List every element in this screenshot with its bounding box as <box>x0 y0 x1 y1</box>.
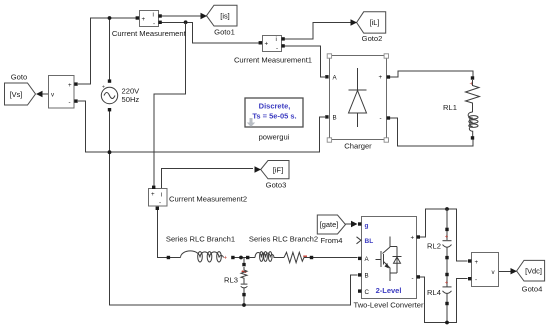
svg-text:-: - <box>159 200 161 207</box>
arrowhead into Goto3 <box>255 166 262 172</box>
diode inside charger <box>357 68 359 90</box>
wire: AC source bottom down to bottom rail and Converter B <box>110 110 358 305</box>
svg-text:RL4: RL4 <box>427 288 441 297</box>
svg-text:RL2: RL2 <box>427 241 441 250</box>
svg-text:Discrete,: Discrete, <box>259 102 291 111</box>
IGBT symbol <box>389 237 391 248</box>
svg-text:Goto4: Goto4 <box>522 284 543 293</box>
voltage measurement Vdc <box>468 253 499 287</box>
svg-text:g: g <box>365 223 369 230</box>
goto tag Goto4 [Vdc] <box>517 260 545 293</box>
node: RL3 top junction <box>239 256 243 260</box>
node: rail / AC source junction <box>108 16 112 20</box>
port nubs <box>358 222 361 225</box>
arrowhead into Goto4 <box>511 268 518 274</box>
wire: CM2 minus down to Series RLC Branch1 <box>158 209 169 258</box>
svg-text:[is]: [is] <box>220 12 229 21</box>
wire: AC source top to rail <box>109 18 111 81</box>
series RLC branch RL2 (vertical capacitor) <box>427 228 451 260</box>
powergui block <box>245 98 303 142</box>
svg-text:[Vs]: [Vs] <box>10 90 23 99</box>
two-level converter block <box>353 217 424 310</box>
svg-text:+: + <box>411 235 415 242</box>
wire: CM2 i output to Goto3 <box>162 169 254 190</box>
wire: branch1 to branch2 junction <box>234 257 248 259</box>
arrowhead into Goto2 <box>351 19 358 25</box>
svg-text:B: B <box>333 115 337 122</box>
svg-text:+: + <box>265 40 269 47</box>
svg-text:-: - <box>380 115 382 122</box>
svg-text:+: + <box>445 281 449 287</box>
svg-text:Two-Level Converter: Two-Level Converter <box>353 300 424 309</box>
goto tag Goto2 [iL] <box>357 12 386 43</box>
wire: Vs v-meas minus / common node to Charger B <box>78 101 325 152</box>
wire: From4 to Converter g <box>346 223 353 225</box>
svg-text:-: - <box>69 99 71 106</box>
BL unconnected chevron <box>357 237 362 244</box>
series RLC branch1 (inductor) <box>166 234 235 262</box>
arrowhead into [Vs] <box>36 91 43 97</box>
svg-text:i: i <box>153 12 154 19</box>
charger block (selected) <box>325 54 390 151</box>
svg-text:Series RLC Branch1: Series RLC Branch1 <box>166 234 235 243</box>
arrowhead into converter g <box>351 221 358 227</box>
goto tag Goto1 [is] <box>207 5 238 36</box>
svg-text:i: i <box>276 36 277 43</box>
svg-text:[iF]: [iF] <box>273 165 283 174</box>
wire: Converter plus to DC top rail to Vdc plus <box>420 209 468 261</box>
wire: CM i output to Goto1 <box>159 15 203 17</box>
svg-text:Current Measurement1: Current Measurement1 <box>234 56 312 65</box>
svg-text:From4: From4 <box>321 236 343 245</box>
svg-text:+: + <box>151 191 155 198</box>
svg-text:+: + <box>68 82 72 89</box>
svg-text:RL1: RL1 <box>443 103 457 112</box>
svg-text:RL3: RL3 <box>224 276 238 285</box>
series RLC branch2 (inductor + resistor) <box>246 234 318 262</box>
svg-text:Charger: Charger <box>344 142 372 151</box>
svg-text:Goto2: Goto2 <box>362 34 383 43</box>
svg-text:50Hz: 50Hz <box>122 95 140 104</box>
goto tag Goto3 [iF] <box>261 161 289 190</box>
current measurement CM1 <box>234 36 312 65</box>
node: AC bottom / common junction <box>108 150 112 154</box>
wire: RL1 bottom to Charger minus <box>390 118 473 146</box>
svg-text:[iL]: [iL] <box>370 18 380 27</box>
svg-text:Goto3: Goto3 <box>266 180 287 189</box>
svg-text:Series RLC Branch2: Series RLC Branch2 <box>249 234 318 243</box>
svg-text:-: - <box>412 275 414 282</box>
svg-text:-: - <box>475 277 477 284</box>
wire: branch2 to Converter A <box>312 257 358 259</box>
svg-text:+: + <box>475 259 479 266</box>
series RLC branch RL1 <box>443 76 479 139</box>
svg-text:[Vdc]: [Vdc] <box>525 267 542 276</box>
svg-text:2-Level: 2-Level <box>376 286 402 295</box>
svg-text:powergui: powergui <box>259 133 290 142</box>
svg-text:Current Measurement: Current Measurement <box>112 29 187 38</box>
node: RL4 bottom rail junction <box>445 321 449 325</box>
selection handles <box>327 54 331 58</box>
arrowhead into Goto1 <box>201 13 208 19</box>
node: RL3 bottom rail junction <box>242 303 246 307</box>
wire: junction down to Current Measurement2 plus <box>154 22 186 186</box>
svg-text:B: B <box>365 273 369 280</box>
wire: CM1 minus to Charger A <box>283 46 325 77</box>
svg-text:[gate]: [gate] <box>320 220 339 229</box>
svg-text:BL: BL <box>365 238 374 245</box>
AC voltage source 220V 50Hz <box>101 79 140 111</box>
wire: Vs v-meas plus up to top rail <box>78 18 136 84</box>
from tag From4 [gate] <box>317 215 345 245</box>
wire: CM1 i output to Goto2 <box>283 23 351 39</box>
svg-text:Goto: Goto <box>11 73 27 82</box>
svg-text:C: C <box>365 289 370 296</box>
svg-text:-: - <box>153 21 155 28</box>
charger port nubs <box>325 75 328 78</box>
series RLC branch RL4 (vertical capacitor) <box>427 273 451 305</box>
svg-text:+: + <box>445 234 449 240</box>
node: RL2 top junction <box>445 207 449 211</box>
svg-text:i: i <box>161 192 162 199</box>
wire: RL3 vertical <box>243 258 245 264</box>
svg-text:+: + <box>224 255 228 261</box>
svg-text:-: - <box>276 45 278 52</box>
svg-text:Current Measurement2: Current Measurement2 <box>169 195 247 204</box>
wire: RL2/RL4 chain vertical <box>446 209 448 240</box>
goto tag [Vs] <box>5 73 36 106</box>
svg-text:+: + <box>142 16 146 23</box>
current measurement CM2 <box>149 186 248 210</box>
svg-text:Ts = 5e-05 s.: Ts = 5e-05 s. <box>252 112 296 121</box>
svg-text:Goto1: Goto1 <box>214 27 235 36</box>
wire: Charger plus to RL1 top <box>390 71 473 78</box>
wire: Converter minus to DC bottom rail to Vdc minus <box>420 277 468 323</box>
current measurement CM <box>112 11 187 39</box>
svg-text:+: + <box>379 74 383 81</box>
wire: v-meas Vdc output to Goto4 <box>498 270 511 272</box>
wire: CM minus to CM1 plus <box>160 22 259 43</box>
svg-text:+: + <box>102 85 105 91</box>
series RLC branch RL3 (vertical) <box>224 263 247 296</box>
node: CM minus junction <box>184 20 188 24</box>
wire: v-meas Vs output to Goto tag <box>41 93 49 95</box>
voltage measurement Vs <box>49 76 78 109</box>
